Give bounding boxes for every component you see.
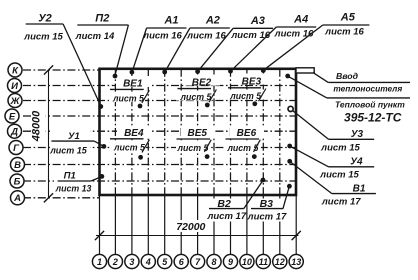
svg-text:8: 8 — [211, 257, 216, 267]
svg-text:лист 5: лист 5 — [112, 94, 144, 104]
ВЕ6 target dot — [252, 154, 257, 159]
П2 underline — [77, 24, 128, 26]
svg-text:А4: А4 — [293, 14, 308, 26]
svg-text:4: 4 — [145, 257, 151, 267]
axis row А line — [23, 197, 100, 199]
axis circle Г — [9, 141, 23, 155]
В1 target dot — [287, 159, 292, 164]
axis circle 13 — [289, 254, 303, 268]
А1 underline — [147, 27, 187, 29]
heat inlet stub — [296, 68, 314, 73]
ВЕ4 bar — [110, 138, 144, 140]
svg-text:1: 1 — [97, 257, 102, 267]
axis row И line — [23, 85, 296, 87]
white box BE 8 — [181, 127, 215, 138]
В2 leader — [244, 181, 263, 209]
svg-text:А: А — [13, 193, 21, 204]
svg-text:ВЕ2: ВЕ2 — [192, 78, 212, 89]
svg-text:У1: У1 — [68, 131, 80, 142]
svg-text:72000: 72000 — [176, 221, 205, 233]
axis column 4 extension to circle — [147, 195, 149, 255]
axis circle К — [8, 63, 22, 77]
svg-text:ВЕ6: ВЕ6 — [237, 128, 257, 139]
У1 leader — [94, 141, 103, 146]
axis column 2 extension to circle — [114, 195, 116, 255]
svg-text:У3: У3 — [351, 129, 364, 140]
svg-text:И: И — [11, 81, 18, 92]
svg-text:лист 16: лист 16 — [274, 28, 314, 39]
А4 underline — [276, 26, 316, 28]
svg-text:Тепловой пункт: Тепловой пункт — [335, 100, 405, 110]
axis circle 11 — [256, 254, 270, 268]
svg-text:2: 2 — [112, 257, 118, 267]
ВЕ5 target dot — [205, 154, 210, 159]
axis row Д line — [23, 130, 296, 132]
axis circle 5 — [158, 254, 172, 268]
dim tick top — [44, 65, 53, 74]
axis circle 2 — [108, 254, 122, 268]
В1 leader — [290, 162, 332, 194]
svg-text:Д: Д — [10, 127, 18, 138]
svg-text:лист 5: лист 5 — [113, 143, 145, 153]
А3 target dot — [195, 69, 200, 74]
svg-text:ВЕ3: ВЕ3 — [242, 77, 262, 88]
axis column 12 line (in building) — [279, 69, 281, 195]
axis column 9 line (in building) — [230, 69, 232, 195]
white box BE 6 — [117, 126, 152, 137]
svg-text:лист 17: лист 17 — [321, 197, 361, 208]
axis row К line — [23, 69, 100, 71]
svg-text:10: 10 — [242, 257, 252, 267]
svg-text:лист 15: лист 15 — [49, 146, 88, 156]
svg-text:Б: Б — [14, 176, 21, 187]
ВЕ1 лист5 slash — [142, 90, 149, 103]
axis circle 9 — [223, 254, 237, 268]
У4 target dot — [287, 144, 292, 149]
А4 leader — [231, 27, 276, 71]
ВЕ3 target dot — [252, 101, 257, 106]
svg-text:У4: У4 — [350, 157, 363, 168]
А5 leader — [264, 25, 323, 70]
Ввод leader — [313, 73, 328, 83]
У2 underline — [26, 23, 63, 25]
axis circle 6 — [174, 254, 188, 268]
svg-text:11: 11 — [259, 257, 268, 267]
axis row Г line — [23, 147, 296, 149]
white box BE 10 — [230, 127, 264, 138]
П1 leader — [91, 177, 101, 181]
svg-text:лист 16: лист 16 — [186, 31, 226, 42]
ВЕ3 лист5 slash — [259, 89, 266, 102]
svg-text:9: 9 — [228, 257, 233, 267]
white box 72000 — [175, 220, 208, 232]
axis circle 10 — [240, 254, 254, 268]
dimension line 48000 vertical — [48, 70, 50, 198]
У2 target dot — [98, 104, 103, 109]
ВЕ2 target dot — [205, 103, 210, 108]
svg-text:Ввод: Ввод — [336, 71, 359, 81]
У1 target dot — [102, 144, 107, 149]
dim tick left — [95, 231, 104, 240]
axis column 1 extension to circle — [99, 195, 101, 255]
axis column 3 line (in building) — [131, 69, 133, 195]
У3 leader — [292, 110, 328, 139]
svg-text:395-12-ТС: 395-12-ТС — [344, 111, 402, 125]
axis column 2 line (in building) — [114, 69, 116, 195]
svg-text:лист 14: лист 14 — [75, 31, 115, 42]
svg-text:лист 5: лист 5 — [229, 91, 261, 101]
axis circle 12 — [273, 254, 287, 268]
svg-text:В: В — [14, 160, 21, 171]
axis column 7 extension to circle — [197, 195, 199, 255]
axis column 7 line (in building) — [197, 69, 199, 195]
svg-text:лист 16: лист 16 — [230, 30, 270, 41]
Тепловой пункт target dot — [285, 74, 290, 79]
У4 leader — [290, 146, 328, 167]
svg-text:48000: 48000 — [31, 110, 43, 142]
А1 leader — [132, 28, 146, 72]
А4 target dot — [228, 69, 233, 74]
axis row Ж line — [23, 100, 296, 102]
В3 target dot — [287, 184, 292, 189]
svg-text:У2: У2 — [38, 13, 52, 25]
axis row В line — [23, 164, 296, 166]
П2 leader — [115, 25, 128, 75]
У3 target ring — [288, 106, 293, 111]
axis circle 7 — [191, 254, 205, 268]
А5 target dot — [261, 68, 266, 73]
white box П1 block — [54, 166, 92, 192]
svg-text:лист 5: лист 5 — [226, 143, 258, 153]
svg-text:ВЕ4: ВЕ4 — [124, 128, 144, 139]
А2 leader — [165, 28, 190, 71]
white box В2 block — [208, 199, 245, 222]
building outline — [100, 69, 297, 195]
axis circle 1 — [92, 254, 106, 268]
svg-text:В3: В3 — [260, 198, 274, 210]
Тепловой пункт leader line — [327, 97, 410, 99]
В3 leader — [283, 187, 289, 209]
white box В3 block — [250, 199, 285, 222]
white box BE 2 — [184, 75, 220, 86]
axis column 10 extension to circle — [246, 195, 248, 255]
svg-text:лист 5: лист 5 — [180, 92, 212, 102]
axis column 13 extension to circle — [295, 195, 297, 255]
axis column 8 extension to circle — [213, 195, 215, 255]
white box BE 11 — [226, 142, 261, 152]
ВЕ2 bar — [178, 88, 212, 90]
axis column 10 line (in building) — [246, 69, 248, 195]
А3 leader — [198, 28, 233, 71]
axis row Б line — [23, 180, 296, 182]
svg-text:А2: А2 — [205, 15, 220, 27]
ВЕ3 bar — [228, 87, 261, 89]
ВЕ6 лист5 slash — [254, 140, 261, 152]
white box BE 0 — [116, 76, 152, 87]
white box BE 5 — [228, 90, 264, 100]
svg-text:ВЕ1: ВЕ1 — [123, 78, 143, 89]
axis column 9 extension to circle — [230, 195, 232, 255]
svg-text:лист 16: лист 16 — [142, 31, 182, 42]
axis circle Д — [8, 124, 22, 138]
axis circle Е — [5, 109, 19, 123]
svg-text:П1: П1 — [64, 171, 76, 182]
axis circle 3 — [125, 254, 139, 268]
svg-text:Е: Е — [9, 111, 16, 122]
white box 48000 — [34, 106, 46, 144]
А2 underline — [190, 27, 230, 29]
П1 underline — [58, 180, 92, 182]
axis column 13 line (in building) — [295, 69, 297, 195]
svg-text:лист 15: лист 15 — [23, 32, 63, 43]
axis circle 8 — [207, 254, 221, 268]
axis column 12 extension to circle — [279, 195, 281, 255]
axis circle 4 — [141, 254, 155, 268]
svg-text:В1: В1 — [353, 183, 366, 194]
ВЕ4 лист5 slash — [142, 140, 149, 153]
dim tick right — [292, 231, 301, 240]
axis column 1 line (in building) — [99, 69, 101, 195]
axis circle А — [11, 191, 25, 205]
svg-text:лист 17: лист 17 — [247, 212, 287, 223]
А5 underline — [323, 24, 370, 26]
dimension line 72000 horizontal — [96, 235, 299, 237]
dim tick bottom — [44, 193, 53, 202]
У1 underline — [51, 140, 94, 142]
svg-text:лист 15: лист 15 — [320, 143, 360, 154]
В2 target dot — [261, 178, 266, 183]
white box У1 block — [50, 130, 90, 154]
axis circle И — [8, 79, 22, 93]
П2 target dot — [113, 74, 118, 79]
Тепловой пункт leader — [288, 76, 327, 98]
white box BE 3 — [176, 91, 212, 101]
А3 underline — [233, 27, 273, 29]
svg-text:лист 15: лист 15 — [319, 170, 359, 181]
ВЕ2 лист5 slash — [209, 90, 216, 103]
В1 underline — [332, 193, 376, 195]
svg-text:Ж: Ж — [10, 96, 21, 107]
axis column 5 extension to circle — [164, 195, 166, 255]
У3 underline — [329, 138, 375, 140]
svg-text:теплоносителя: теплоносителя — [333, 84, 402, 94]
axis circle В — [11, 158, 25, 172]
axis column 5 line (in building) — [164, 69, 166, 195]
svg-text:лист 17: лист 17 — [206, 211, 246, 222]
svg-text:П2: П2 — [95, 13, 109, 25]
svg-text:лист 16: лист 16 — [324, 26, 364, 37]
white box BE 1 — [109, 92, 145, 102]
ВЕ1 target dot — [138, 104, 143, 109]
white box BE 7 — [110, 141, 146, 151]
svg-text:3: 3 — [129, 257, 134, 267]
axis row Е line — [23, 115, 296, 117]
axis column 11 extension to circle — [262, 195, 264, 255]
axis column 3 extension to circle — [131, 195, 133, 255]
ВЕ5 лист5 slash — [204, 140, 211, 152]
axis column 6 line (in building) — [180, 69, 182, 195]
А1 target dot — [130, 70, 135, 75]
svg-text:ВЕ5: ВЕ5 — [187, 128, 207, 139]
svg-text:лист 5: лист 5 — [177, 143, 209, 153]
axis circle Б — [10, 174, 24, 188]
У2 leader — [63, 24, 101, 106]
axis column 8 line (in building) — [213, 69, 215, 195]
svg-text:лист 13: лист 13 — [55, 184, 92, 194]
У4 underline — [329, 166, 375, 168]
ВЕ4 target dot — [138, 155, 143, 160]
svg-text:А3: А3 — [250, 15, 265, 27]
svg-text:12: 12 — [275, 257, 285, 267]
axis column 4 line (in building) — [147, 69, 149, 195]
axis column 11 line (in building) — [262, 69, 264, 195]
svg-text:А5: А5 — [340, 12, 356, 24]
ВЕ6 bar — [226, 138, 260, 140]
axis circle Ж — [8, 94, 22, 108]
white box BE 4 — [234, 74, 270, 85]
В2 underline — [209, 208, 244, 210]
svg-text:13: 13 — [291, 257, 301, 267]
В3 underline — [251, 208, 283, 210]
П1 target dot — [100, 174, 105, 179]
white box BE 9 — [176, 142, 211, 152]
axis column 6 extension to circle — [180, 195, 182, 255]
ВЕ5 bar — [177, 138, 211, 140]
ВЕ1 bar — [110, 88, 144, 90]
Ввод underline — [328, 81, 410, 83]
А2 target dot — [162, 70, 167, 75]
svg-text:А1: А1 — [163, 15, 178, 27]
svg-text:В2: В2 — [217, 198, 231, 210]
